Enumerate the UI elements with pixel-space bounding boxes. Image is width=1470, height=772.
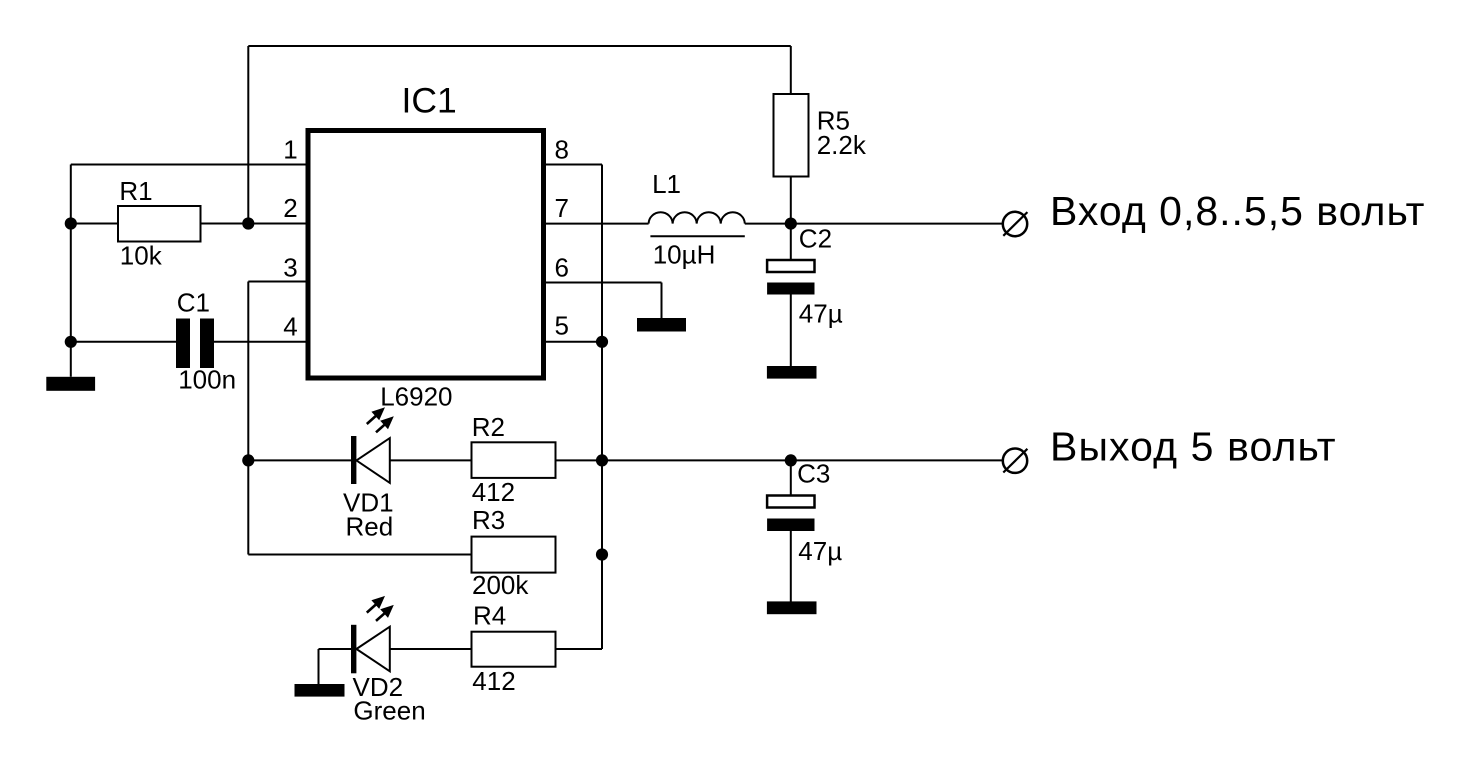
svg-text:412: 412 bbox=[472, 666, 515, 696]
wire pin 7 to L1 bbox=[546, 223, 649, 225]
svg-text:Red: Red bbox=[346, 511, 394, 541]
svg-text:IC1: IC1 bbox=[402, 81, 457, 121]
svg-text:C2: C2 bbox=[799, 224, 832, 254]
resistor R4 bbox=[472, 632, 556, 667]
wire C3 bottom lead bbox=[790, 531, 792, 602]
svg-text:100n: 100n bbox=[178, 365, 236, 395]
svg-text:5: 5 bbox=[555, 311, 569, 341]
svg-text:R2: R2 bbox=[472, 412, 505, 442]
svg-text:C3: C3 bbox=[797, 459, 830, 489]
svg-text:R1: R1 bbox=[119, 176, 152, 206]
node pin 5 / right rail bbox=[596, 336, 608, 348]
LED VD1 cathode bar bbox=[351, 436, 356, 484]
resistor R3 bbox=[472, 537, 556, 573]
svg-text:7: 7 bbox=[555, 193, 569, 223]
wire C1 right lead to pin 4 bbox=[214, 341, 306, 343]
ground C3 bbox=[767, 601, 817, 614]
VD1 light arrow 2 bbox=[376, 424, 385, 432]
wire R3 left lead bbox=[248, 554, 471, 556]
inductor L1 bbox=[649, 212, 745, 223]
resistor R5 bbox=[774, 94, 809, 177]
terminal output circle bbox=[1003, 449, 1027, 473]
wire pin 5 stub bbox=[546, 341, 602, 343]
svg-text:C1: C1 bbox=[177, 288, 210, 318]
svg-text:47µ: 47µ bbox=[798, 536, 842, 566]
svg-text:L6920: L6920 bbox=[380, 382, 452, 412]
wire pin 3 vertical to R3 row bbox=[247, 282, 249, 555]
capacitor C1 left plate bbox=[176, 319, 190, 369]
node R2 right / right rail bbox=[596, 454, 608, 466]
svg-text:L1: L1 bbox=[652, 169, 681, 199]
svg-text:4: 4 bbox=[283, 312, 297, 342]
wire C3 top lead bbox=[790, 460, 792, 495]
node C1 row / left rail bbox=[65, 336, 77, 348]
LED VD2 cathode bar bbox=[351, 625, 356, 674]
wire L1 to input terminal bbox=[745, 223, 1003, 225]
node C3 / output row bbox=[785, 454, 797, 466]
wire R4 right lead bbox=[556, 648, 603, 650]
ground left rail bbox=[46, 377, 95, 391]
svg-text:200k: 200k bbox=[472, 570, 529, 600]
svg-text:R4: R4 bbox=[473, 601, 506, 631]
svg-text:Выход 5 вольт: Выход 5 вольт bbox=[1050, 423, 1337, 469]
wire pin 6 ground drop bbox=[661, 283, 663, 319]
wire pin 6 stub bbox=[546, 282, 662, 284]
resistor R1 bbox=[118, 206, 201, 242]
LED VD2 triangle bbox=[356, 627, 389, 672]
wire right vertical rail bbox=[601, 165, 603, 650]
terminal input circle bbox=[1003, 212, 1027, 236]
wire VD1 left lead bbox=[248, 459, 351, 461]
wire VD2 left lead bbox=[319, 648, 352, 650]
VD2 light arrow 2 bbox=[376, 613, 385, 621]
VD2 light arrow 1 bbox=[367, 604, 377, 613]
wire VD2 ground drop bbox=[318, 649, 320, 684]
wire C2 top lead bbox=[790, 224, 792, 260]
IC U1 (IC1) body bbox=[308, 131, 544, 379]
resistor R2 bbox=[472, 442, 556, 478]
wire C2 bottom lead bbox=[790, 295, 792, 367]
node L1 / R5 / C2 bbox=[785, 218, 797, 230]
ground C2 bbox=[767, 366, 817, 379]
svg-text:1: 1 bbox=[283, 134, 297, 164]
wire top feed horizontal bbox=[248, 45, 791, 47]
VD1 light arrow 1 bbox=[367, 416, 377, 425]
L1 underline bbox=[650, 235, 744, 237]
wire left rail bbox=[70, 165, 72, 377]
wire R2 right lead to output rail bbox=[556, 459, 1003, 461]
wire R1 right lead to pin 2 bbox=[201, 223, 307, 225]
wire pin 3 stub bbox=[248, 281, 306, 283]
wire pin 8 stub bbox=[546, 164, 602, 166]
capacitor C2 positive plate bbox=[767, 260, 814, 272]
svg-text:2: 2 bbox=[283, 193, 297, 223]
LED VD1 triangle bbox=[356, 438, 389, 483]
svg-text:R3: R3 bbox=[472, 505, 505, 535]
svg-text:10k: 10k bbox=[120, 241, 163, 271]
capacitor C1 right plate bbox=[200, 319, 214, 369]
capacitor C3 positive plate bbox=[767, 496, 814, 508]
terminal output slash bbox=[1003, 449, 1027, 473]
wire pin 1 row bbox=[71, 164, 306, 166]
terminal input slash bbox=[1003, 212, 1027, 236]
ground pin 6 bbox=[637, 318, 686, 332]
node R3 right / right rail bbox=[596, 548, 608, 560]
svg-text:Вход 0,8..5,5 вольт: Вход 0,8..5,5 вольт bbox=[1050, 188, 1425, 234]
wire R5 bottom lead bbox=[790, 177, 792, 224]
node R1 left / left rail bbox=[65, 217, 77, 229]
wire C1 left lead bbox=[71, 341, 176, 343]
wire VD2 to R4 lead bbox=[390, 648, 472, 650]
svg-text:412: 412 bbox=[472, 477, 515, 507]
svg-text:8: 8 bbox=[555, 134, 569, 164]
svg-text:47µ: 47µ bbox=[799, 299, 843, 329]
capacitor C2 negative plate bbox=[767, 283, 814, 295]
node R1 right / pin 2 bbox=[242, 217, 254, 229]
wire VD1 to R2 lead bbox=[390, 459, 472, 461]
node VD1 row / pin 3 rail bbox=[242, 454, 254, 466]
svg-text:10µH: 10µH bbox=[653, 240, 716, 270]
wire R5 top lead bbox=[790, 46, 792, 94]
capacitor C3 negative plate bbox=[767, 519, 814, 532]
ground VD2 bbox=[295, 684, 345, 697]
wire R1 left lead bbox=[71, 223, 118, 225]
svg-text:3: 3 bbox=[283, 253, 297, 283]
svg-text:Green: Green bbox=[353, 696, 425, 726]
wire top feed vertical to pin 2 node bbox=[247, 46, 249, 224]
svg-text:6: 6 bbox=[555, 253, 569, 283]
svg-text:2.2k: 2.2k bbox=[817, 130, 867, 160]
